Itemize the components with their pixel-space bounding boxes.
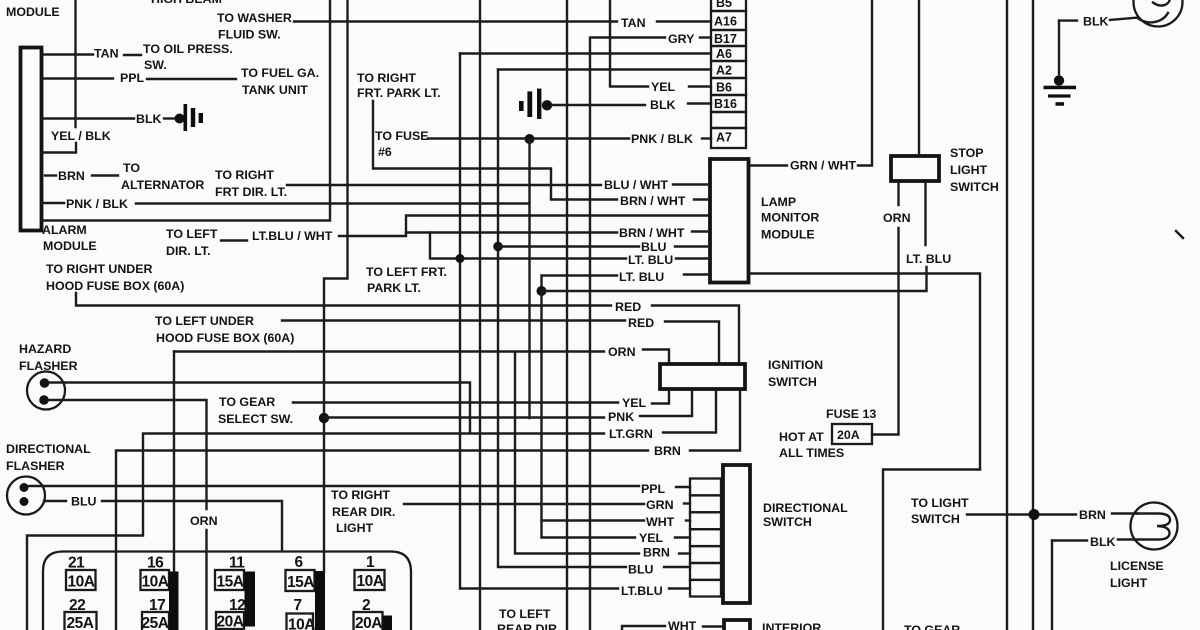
svg-text:TO RIGHT: TO RIGHT bbox=[357, 71, 416, 85]
wire GRN/WHT label to vertical x874 up bbox=[858, 0, 872, 166]
svg-text:ALL TIMES: ALL TIMES bbox=[779, 446, 844, 460]
svg-text:B6: B6 bbox=[716, 81, 732, 95]
fuse bus bar 4 bbox=[383, 616, 393, 630]
svg-text:20A: 20A bbox=[355, 615, 382, 630]
wire PNK/BLK from TO FUSE to junction bbox=[428, 137, 524, 139]
svg-text:MONITOR: MONITOR bbox=[761, 211, 819, 225]
svg-text:BLU / WHT: BLU / WHT bbox=[604, 178, 668, 192]
splice symbol right (bars and dot) bbox=[519, 101, 524, 111]
svg-text:RED: RED bbox=[628, 316, 654, 330]
svg-text:MODULE: MODULE bbox=[6, 5, 60, 19]
stray scan tick bbox=[1176, 231, 1183, 238]
wire YEL/BLK hook from alarm module bbox=[42, 143, 76, 153]
svg-text:TO GEAR: TO GEAR bbox=[904, 623, 960, 630]
wire PNK/BLK from alarm module bbox=[42, 202, 64, 204]
svg-text:SWITCH: SWITCH bbox=[950, 180, 999, 194]
wire junction to PNK/BLK label bbox=[534, 137, 629, 139]
svg-text:FUSE 13: FUSE 13 bbox=[826, 407, 876, 421]
svg-text:FRT DIR. LT.: FRT DIR. LT. bbox=[215, 185, 287, 199]
svg-text:PPL: PPL bbox=[120, 71, 145, 85]
wire PPL from alarm module bbox=[42, 77, 113, 79]
wire BLU/WHT label to module bbox=[673, 183, 708, 185]
svg-text:B16: B16 bbox=[714, 97, 737, 111]
svg-text:IGNITION: IGNITION bbox=[768, 358, 823, 372]
stop light switch box bbox=[891, 156, 939, 181]
svg-text:BLU: BLU bbox=[641, 240, 667, 254]
wire GRN/WHT from module top right bbox=[750, 164, 787, 166]
wire long vertical x347 with jog to x324 down into fuse box bbox=[324, 0, 348, 572]
alarm module box bbox=[21, 48, 42, 231]
lamp monitor module box bbox=[710, 159, 749, 283]
svg-text:SWITCH: SWITCH bbox=[911, 512, 960, 526]
wire TAN from alarm module bbox=[42, 53, 93, 55]
wire LT. BLU 1 label to module bbox=[676, 257, 708, 259]
wire branch x430 down to LT.BLU junction bbox=[430, 233, 456, 259]
directional switch connector cells bbox=[690, 479, 721, 597]
fuse 16 box 10A bbox=[141, 570, 170, 590]
wire BRN/WHT 2 label to module bbox=[692, 230, 708, 232]
wire bracket from TO RIGHT FRT PARK LT down and right bbox=[373, 101, 551, 199]
wire ORN label to ignition switch top left bbox=[643, 350, 669, 363]
wire splice to BLK label bbox=[552, 104, 645, 106]
svg-text:HAZARD: HAZARD bbox=[19, 342, 71, 356]
wire BLK top with stub bbox=[1059, 19, 1077, 21]
svg-text:20A: 20A bbox=[837, 428, 860, 442]
wire A6 horizontal to connector bbox=[460, 52, 711, 54]
wire BLK label to B16 bbox=[688, 102, 711, 104]
wire vertical x541 junction down to WHT/YEL pins bbox=[542, 291, 636, 538]
svg-text:ORN: ORN bbox=[883, 211, 911, 225]
svg-text:BLK: BLK bbox=[1090, 535, 1116, 549]
wire dash flasher to BLU bbox=[44, 500, 66, 502]
svg-text:B17: B17 bbox=[714, 32, 737, 46]
wire LT. BLU 2 elbow bbox=[542, 276, 618, 292]
wire PPL directional flasher top to switch bbox=[29, 485, 639, 487]
svg-text:LICENSE: LICENSE bbox=[1110, 559, 1164, 573]
wire LT.BLU label to pin bbox=[669, 587, 690, 589]
svg-text:1: 1 bbox=[366, 554, 375, 571]
wire TO LIGHT SWITCH to BRN bbox=[967, 513, 1076, 515]
svg-text:STOP: STOP bbox=[950, 146, 984, 160]
ignition switch box bbox=[660, 364, 745, 389]
wire WHT pin corner from x541 bbox=[542, 519, 645, 521]
svg-text:TO FUEL GA.: TO FUEL GA. bbox=[241, 66, 319, 80]
wire A6 vertical x460 down to LT.BLU pin of directional switch bbox=[460, 54, 618, 589]
svg-text:BRN / WHT: BRN / WHT bbox=[620, 194, 686, 208]
directional switch body box bbox=[723, 465, 750, 603]
wire WHT bottom to interior box bbox=[703, 625, 722, 627]
wire long vertical x1033 bbox=[1032, 0, 1034, 630]
svg-text:REAR DIR.: REAR DIR. bbox=[497, 622, 560, 630]
svg-text:PPL: PPL bbox=[641, 482, 666, 496]
svg-text:6: 6 bbox=[295, 554, 304, 571]
wire hazard bottom vertical below ORN label bbox=[205, 530, 207, 630]
wire BLU label to pin bbox=[664, 566, 690, 568]
svg-text:10A: 10A bbox=[288, 617, 315, 630]
svg-text:HIGH BEAM: HIGH BEAM bbox=[151, 0, 222, 6]
svg-text:REAR DIR.: REAR DIR. bbox=[332, 505, 395, 519]
svg-text:GRN: GRN bbox=[646, 498, 674, 512]
svg-text:TAN: TAN bbox=[621, 16, 646, 30]
wire BLK to splice bbox=[164, 117, 175, 119]
fuse bus bar 1 bbox=[169, 572, 179, 630]
junction dot select sw wire bbox=[319, 413, 329, 423]
splice symbol left (dot and bars) bbox=[175, 114, 185, 124]
svg-text:SWITCH: SWITCH bbox=[768, 375, 817, 389]
wire from LT.BLU2 junction right to stoplight stub bbox=[542, 267, 927, 291]
svg-text:FLUID SW.: FLUID SW. bbox=[218, 28, 281, 42]
svg-text:10A: 10A bbox=[357, 573, 384, 590]
svg-text:LT. BLU: LT. BLU bbox=[628, 253, 673, 267]
bulb filament top right bbox=[1138, 0, 1171, 22]
wire vertical stub top-left x75 bbox=[74, 0, 76, 127]
wire WHT bottom left segment bbox=[622, 626, 665, 630]
svg-text:TAN: TAN bbox=[94, 47, 119, 61]
directional flasher contact dots bbox=[20, 483, 29, 492]
svg-text:10A: 10A bbox=[142, 574, 169, 591]
svg-text:TO LEFT FRT.: TO LEFT FRT. bbox=[366, 265, 447, 279]
wire TAN label to A16 bbox=[657, 20, 711, 22]
license bulb filament bbox=[1134, 514, 1170, 540]
svg-text:SW.: SW. bbox=[144, 58, 167, 72]
fuse 2 box 20A bbox=[354, 612, 383, 630]
svg-text:YEL: YEL bbox=[639, 531, 664, 545]
wire BLK label to bulb bbox=[1110, 18, 1138, 21]
fuse 11 box 15A bbox=[215, 570, 244, 590]
wire LT.GRN long to bottom left bbox=[27, 434, 604, 630]
wire YEL label to ignition bottom left bbox=[652, 391, 669, 404]
svg-text:A6: A6 bbox=[716, 47, 732, 61]
svg-text:DIRECTIONAL: DIRECTIONAL bbox=[763, 501, 848, 515]
wire BLU/WHT from frt dir lt to module bbox=[287, 184, 601, 186]
svg-text:TO LEFT: TO LEFT bbox=[499, 607, 551, 621]
wire RED1 label to ignition switch top right bbox=[652, 306, 739, 363]
svg-text:LIGHT: LIGHT bbox=[1110, 576, 1148, 590]
wire PPL label to pin bbox=[676, 486, 690, 488]
svg-text:INTERIOR: INTERIOR bbox=[762, 621, 821, 630]
svg-text:A16: A16 bbox=[714, 15, 737, 29]
svg-text:LIGHT: LIGHT bbox=[336, 521, 374, 535]
wire PPL to fuel tank unit bbox=[147, 78, 236, 80]
wire RED2 from left hood fuse box bbox=[282, 319, 625, 321]
svg-text:TO LEFT: TO LEFT bbox=[166, 227, 218, 241]
svg-text:YEL / BLK: YEL / BLK bbox=[51, 129, 111, 143]
wire BRN/WHT 2 with corner down to LT.BLU wire bbox=[406, 231, 617, 233]
svg-text:TO RIGHT UNDER: TO RIGHT UNDER bbox=[46, 262, 153, 276]
connector column cells bbox=[711, 0, 746, 148]
svg-text:DIRECTIONAL: DIRECTIONAL bbox=[6, 442, 91, 456]
wire PNK/BLK long to splice vertical bbox=[136, 202, 529, 204]
wire hazard top to corner x470 bbox=[48, 383, 470, 434]
svg-text:BLU: BLU bbox=[71, 495, 97, 509]
svg-text:25A: 25A bbox=[67, 615, 94, 630]
svg-text:LAMP: LAMP bbox=[761, 195, 796, 209]
svg-text:HOOD FUSE BOX (60A): HOOD FUSE BOX (60A) bbox=[46, 279, 184, 293]
svg-text:25A: 25A bbox=[142, 615, 169, 630]
wire stop light switch top feed x919 bbox=[918, 0, 920, 154]
junction dot LT.BLU2 bbox=[537, 286, 547, 296]
svg-text:BRN: BRN bbox=[643, 546, 670, 560]
svg-text:7: 7 bbox=[294, 597, 302, 614]
wire long vertical x1007 bbox=[1006, 0, 1008, 630]
svg-text:BRN / WHT: BRN / WHT bbox=[619, 226, 685, 240]
svg-text:FLASHER: FLASHER bbox=[6, 459, 65, 473]
wire ground drop x1059 bbox=[1058, 21, 1060, 74]
wire vertical BRN directional pin x515 bbox=[515, 352, 639, 554]
fuse bus bar 3 bbox=[315, 571, 325, 630]
wire YEL vertical x610 elbow to B6 bbox=[610, 0, 648, 87]
svg-text:BLU: BLU bbox=[628, 563, 654, 577]
wire vertical from PNK/BLK junction down to PNK wire bbox=[528, 139, 530, 418]
wire dash BRN left bbox=[45, 174, 56, 176]
fuse 6 box 15A bbox=[286, 570, 315, 591]
svg-text:LT.BLU: LT.BLU bbox=[621, 584, 663, 598]
svg-text:DIR. LT.: DIR. LT. bbox=[166, 244, 211, 258]
svg-text:MODULE: MODULE bbox=[43, 239, 97, 253]
svg-text:BRN: BRN bbox=[58, 169, 85, 183]
junction dot PNK/BLK bbox=[525, 134, 535, 144]
svg-text:SWITCH: SWITCH bbox=[763, 515, 812, 529]
svg-text:TANK UNIT: TANK UNIT bbox=[242, 83, 308, 97]
svg-text:YEL: YEL bbox=[651, 80, 676, 94]
junction dot LT.BLU wire on x460 bbox=[456, 254, 465, 263]
wire WHT label to pin bbox=[686, 519, 690, 521]
svg-text:BLK: BLK bbox=[1083, 15, 1109, 29]
wire BLU label to module bbox=[675, 245, 708, 247]
wire RED2 label to ignition switch top bbox=[665, 322, 719, 363]
svg-text:WHT: WHT bbox=[646, 515, 675, 529]
svg-text:LT. BLU: LT. BLU bbox=[906, 252, 951, 266]
wire LT.BLU/WHT to lamp monitor module bbox=[339, 216, 708, 237]
svg-text:SELECT SW.: SELECT SW. bbox=[218, 412, 293, 426]
wire A2 horizontal to connector bbox=[498, 68, 711, 70]
svg-text:PNK: PNK bbox=[608, 410, 634, 424]
fuse bus bar 2 bbox=[245, 572, 256, 627]
wire LT. BLU 1 to label bbox=[463, 257, 626, 259]
wire TO GEAR / YEL ignition bbox=[293, 401, 618, 403]
svg-text:TO WASHER: TO WASHER bbox=[217, 11, 292, 25]
svg-text:RED: RED bbox=[615, 300, 641, 314]
svg-text:HOT AT: HOT AT bbox=[779, 430, 824, 444]
junction dot on x1033 bbox=[1029, 509, 1040, 520]
wire RED1 from hood fuse box elbow to ignition switch bbox=[76, 293, 611, 306]
connector pin labels bbox=[714, 0, 737, 145]
svg-text:MODULE: MODULE bbox=[761, 228, 815, 242]
fuse 12 box 20A bbox=[216, 612, 244, 629]
fuse 17 box 25A bbox=[142, 612, 169, 630]
svg-text:GRN / WHT: GRN / WHT bbox=[790, 159, 857, 173]
wire BRN/WHT 1 label to module bbox=[694, 198, 708, 200]
fuse 13 20A box bbox=[832, 424, 872, 444]
svg-text:WHT: WHT bbox=[668, 619, 697, 630]
svg-text:B5: B5 bbox=[716, 0, 732, 10]
wire vertical ORN fuse feed x174 bbox=[173, 352, 175, 575]
wire ORN ignition long bbox=[174, 350, 604, 352]
wire GRY vertical and horizontal to B17 bbox=[590, 38, 665, 630]
svg-text:10A: 10A bbox=[68, 574, 95, 591]
wire LT. BLU 2 label to module bbox=[684, 273, 708, 275]
svg-text:PNK / BLK: PNK / BLK bbox=[66, 197, 128, 211]
wire stop light switch right stub down bbox=[924, 183, 926, 245]
svg-text:TO RIGHT: TO RIGHT bbox=[215, 168, 274, 182]
svg-text:BLK: BLK bbox=[650, 98, 676, 112]
svg-text:YEL: YEL bbox=[622, 396, 647, 410]
fuse box outline rounded bbox=[43, 552, 411, 630]
wire PNK ignition from junction bbox=[324, 416, 604, 418]
wire BRN label to bulb bbox=[1112, 512, 1137, 514]
fuse 1 box 10A bbox=[355, 570, 385, 590]
wire long vertical x567 bbox=[566, 0, 568, 630]
svg-text:ALARM: ALARM bbox=[42, 223, 87, 237]
wire dash after TAN bbox=[124, 54, 141, 56]
junction dot BLU wire on x498 bbox=[493, 242, 503, 252]
svg-text:TO LIGHT: TO LIGHT bbox=[911, 496, 969, 510]
wire corner x980 left to x883 down to bottom bbox=[883, 470, 980, 630]
svg-text:TO: TO bbox=[123, 161, 140, 175]
svg-text:TO GEAR: TO GEAR bbox=[219, 395, 275, 409]
svg-text:FRT. PARK LT.: FRT. PARK LT. bbox=[357, 86, 441, 100]
wire alarm module bottom to vertical bbox=[42, 0, 330, 221]
fuse 7 box 10A bbox=[287, 614, 314, 630]
svg-text:BRN: BRN bbox=[654, 444, 681, 458]
wire BLU to label bbox=[498, 245, 639, 247]
wire GRN from tip to label bbox=[404, 503, 644, 505]
wire GRY label to B17 bbox=[700, 36, 711, 38]
wire BRN/WHT 1 into module bbox=[551, 198, 617, 200]
svg-text:BRN: BRN bbox=[1079, 508, 1106, 522]
svg-text:A2: A2 bbox=[716, 64, 732, 78]
svg-text:20A: 20A bbox=[217, 614, 244, 630]
wire hazard bottom to corner x206 down bbox=[47, 400, 207, 509]
wire GRN label to pin bbox=[684, 502, 690, 504]
wire BLU to fuse box bbox=[102, 501, 282, 551]
wire A2 vertical x498 down to BLU pin corner bbox=[498, 70, 626, 568]
wire BRN ignition long to fuse box bbox=[116, 451, 648, 630]
wire ORN stop light vertical below label to fuse 13 bbox=[872, 228, 899, 435]
svg-text:ORN: ORN bbox=[608, 345, 636, 359]
wire lamp module right to corner x980 down bbox=[750, 274, 980, 470]
hazard flasher circle bbox=[27, 372, 65, 410]
wire PNK/BLK label to A7 bbox=[702, 137, 711, 139]
svg-text:PARK LT.: PARK LT. bbox=[367, 281, 421, 295]
fuse 22 box 25A bbox=[65, 612, 97, 630]
wire BLK license vertical to bottom bbox=[1051, 541, 1053, 630]
svg-text:PNK / BLK: PNK / BLK bbox=[631, 132, 693, 146]
wire PNK label to ignition bottom bbox=[640, 391, 692, 416]
svg-text:ORN: ORN bbox=[190, 514, 218, 528]
wire dash BRN right bbox=[92, 174, 118, 176]
svg-text:HOOD FUSE BOX (60A): HOOD FUSE BOX (60A) bbox=[156, 331, 294, 345]
directional flasher circle bbox=[7, 477, 45, 515]
wire dash after TO LEFT bbox=[221, 239, 247, 241]
svg-text:TO OIL PRESS.: TO OIL PRESS. bbox=[143, 42, 233, 56]
svg-text:TO FUSE: TO FUSE bbox=[375, 129, 428, 143]
fuse 21 box 10A bbox=[66, 570, 96, 590]
svg-text:TO LEFT UNDER: TO LEFT UNDER bbox=[155, 314, 254, 328]
wire BRN label to pin bbox=[679, 552, 690, 554]
wire LT.GRN label to ignition bottom bbox=[663, 391, 716, 433]
wire stop light switch left stub down bbox=[897, 183, 899, 205]
svg-text:TO RIGHT: TO RIGHT bbox=[331, 488, 390, 502]
interior courtesy box (clipped) bbox=[724, 620, 750, 630]
wire BRN label to ignition bottom right bbox=[690, 391, 740, 451]
bulb circle top right bbox=[1134, 0, 1183, 27]
svg-text:15A: 15A bbox=[217, 574, 244, 591]
wire YEL label to B6 bbox=[689, 85, 711, 87]
svg-text:A7: A7 bbox=[716, 131, 732, 145]
svg-text:#6: #6 bbox=[378, 145, 392, 159]
svg-text:LT. BLU: LT. BLU bbox=[619, 270, 664, 284]
wire BLK label to bulb bbox=[1118, 538, 1134, 540]
hazard flasher contact dots bbox=[40, 378, 50, 388]
wire BLK license left bbox=[1052, 539, 1087, 541]
wire BLK from alarm module bbox=[42, 117, 134, 119]
svg-text:BLK: BLK bbox=[136, 112, 162, 126]
wire YEL label to pin bbox=[675, 536, 690, 538]
svg-text:LT.BLU / WHT: LT.BLU / WHT bbox=[252, 229, 333, 243]
svg-text:ALTERNATOR: ALTERNATOR bbox=[121, 178, 204, 192]
svg-text:LIGHT: LIGHT bbox=[950, 163, 988, 177]
ground symbol bbox=[1054, 75, 1064, 85]
license bulb circle bbox=[1131, 503, 1178, 550]
svg-text:GRY: GRY bbox=[668, 32, 695, 46]
svg-text:LT.GRN: LT.GRN bbox=[609, 427, 653, 441]
wire TO WASHER / TAN to connector A16 bbox=[294, 20, 617, 22]
wire long vertical x480 bbox=[479, 0, 481, 630]
svg-text:15A: 15A bbox=[287, 574, 314, 591]
